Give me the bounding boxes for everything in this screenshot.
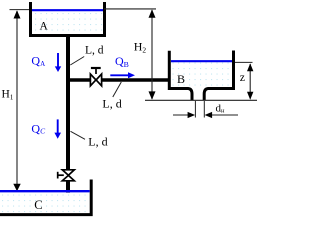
- dimension H1 top arrow: [14, 10, 21, 18]
- dimension H2 line: [151, 10, 153, 99]
- svg-text:z: z: [240, 70, 245, 84]
- water level tank A: [32, 9, 103, 11]
- extension line d right: [203, 101, 205, 118]
- dimension z top arrow: [247, 63, 253, 71]
- tank B left wall and left funnel: [169, 51, 192, 100]
- pipe into tank C: [66, 181, 70, 201]
- horizontal pipe left segment: [67, 78, 91, 82]
- dimension H1 tick: [10, 9, 30, 11]
- water level tank B: [171, 60, 232, 62]
- flow arrow QB: [110, 74, 129, 76]
- top reference line: [104, 8, 156, 10]
- tank B right wall and right funnel: [204, 51, 233, 101]
- pointer line L,d 2: [113, 82, 122, 97]
- tank C wall and bottom: [0, 180, 91, 215]
- dimension H2 bottom arrow: [149, 91, 156, 99]
- dimension z bottom arrow: [247, 92, 253, 100]
- flow arrow QC: [57, 119, 59, 133]
- valve V1 stem: [95, 68, 97, 74]
- horizontal pipe right segment: [102, 78, 169, 82]
- valve V1 body: [90, 74, 101, 86]
- svg-text:B: B: [177, 72, 185, 86]
- tank A walls: [31, 2, 105, 36]
- svg-text:C: C: [34, 198, 42, 212]
- valve V2 handle: [58, 174, 64, 176]
- dimension d left arrow line: [173, 114, 189, 116]
- flow arrow QA: [57, 53, 59, 68]
- valve V2 body: [62, 170, 74, 181]
- tank A fill: [32, 11, 103, 35]
- pipe from A vertical upper run: [66, 35, 70, 170]
- water level tank C: [0, 190, 90, 192]
- dimension H1 bottom arrow: [13, 184, 20, 192]
- dimension H2 top arrow: [149, 9, 156, 17]
- dimension H1 line: [16, 11, 18, 186]
- extension line d left: [194, 101, 196, 118]
- dimension d right arrow line: [211, 114, 239, 116]
- tank C fill: [0, 193, 89, 214]
- pointer line L,d 1: [70, 57, 84, 66]
- svg-text:A: A: [40, 20, 49, 32]
- svg-text:L, d: L, d: [102, 96, 121, 110]
- dimension z line: [249, 64, 251, 99]
- tank B fill: [171, 62, 232, 87]
- dimension z tick: [235, 61, 253, 63]
- pointer line L,d 3: [71, 131, 86, 139]
- svg-text:L, d: L, d: [88, 134, 107, 148]
- datum baseline: [145, 99, 257, 101]
- svg-text:L, d: L, d: [85, 45, 104, 57]
- valve V1 handle: [91, 67, 101, 69]
